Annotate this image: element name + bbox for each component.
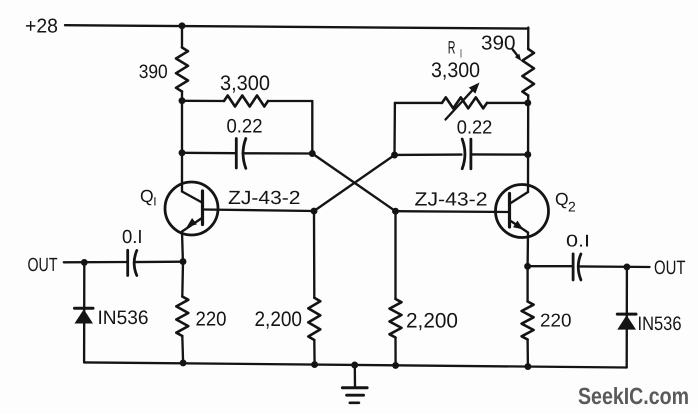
capacitor 0.1 right	[573, 254, 581, 280]
svg-text:OUT: OUT	[28, 255, 58, 276]
wire 0.1 left to Q1 emitter node	[134, 261, 183, 264]
value label 390 right with pointer arrow	[481, 33, 521, 62]
label Q2	[555, 189, 576, 215]
transistor Q1	[165, 182, 218, 235]
junction Q2 base cross node	[392, 208, 399, 215]
resistor 2,200 right	[390, 299, 402, 338]
wire 0.22 right cap left lead	[395, 153, 462, 156]
resistor 390 right	[522, 49, 534, 96]
resistor 390 left	[176, 48, 188, 92]
junction right collector / 0.22	[524, 151, 531, 158]
wire left 390 bottom to Q1 collector (through cap junction)	[181, 92, 183, 192]
svg-text:Q: Q	[555, 189, 569, 209]
wire Q1 base to cross node	[203, 210, 314, 212]
wire bottom rail	[84, 362, 627, 367]
junction top rail to left 390	[179, 22, 186, 29]
wire Q2 emitter node to 0.1 right	[528, 265, 574, 267]
label R1	[448, 37, 462, 60]
wire emitter node to 220 left	[181, 262, 184, 297]
wire +28 top rail	[65, 25, 528, 28]
svg-text:2,200: 2,200	[406, 309, 458, 332]
svg-text:390: 390	[139, 61, 168, 83]
diode 1N536 right	[617, 267, 636, 368]
wire R1 right lead	[487, 102, 528, 104]
resistor 220 left	[176, 297, 188, 337]
wire right rail 390 bottom to Q2 collector	[527, 96, 530, 193]
svg-text:OUT: OUT	[654, 257, 686, 279]
svg-text:R: R	[448, 37, 456, 57]
wire 0.22 left lead	[182, 152, 236, 155]
wire 3300 left lead	[182, 100, 224, 103]
junction bottom rail / 2200 left	[311, 361, 318, 368]
junction OUT left / diode	[81, 259, 88, 266]
junction left 0.22 / cross wire	[309, 150, 316, 157]
wire Q2 emitter down	[526, 233, 529, 267]
junction bottom rail / 220 left	[180, 359, 187, 366]
svg-text:Q: Q	[140, 186, 154, 206]
svg-text:ZJ-43-2: ZJ-43-2	[228, 188, 301, 209]
resistor R1 3,300 variable	[442, 83, 487, 120]
svg-text:220: 220	[540, 310, 572, 331]
label Q1	[140, 186, 157, 209]
transistor Q2	[496, 185, 549, 238]
svg-text:390: 390	[481, 33, 516, 55]
wire cross-coupling left-top to right-bottom	[312, 154, 395, 212]
junction bottom rail / 220 right	[524, 363, 531, 370]
ground	[342, 366, 367, 403]
capacitor 0.22 right	[462, 139, 471, 169]
capacitor 0.1 left	[128, 250, 137, 275]
wire cross node down to 2200 right	[394, 211, 396, 299]
wire Q2 base to cross node	[396, 210, 510, 213]
svg-text:2,200: 2,200	[255, 308, 303, 331]
junction bottom rail / 2200 right	[392, 362, 399, 369]
wire emitter node to 220 right	[526, 266, 528, 301]
junction Q2 emitter / 0.1	[524, 263, 531, 270]
svg-text:2: 2	[568, 199, 576, 215]
diode 1N536 left	[75, 262, 94, 362]
junction left collector / 0.22	[179, 149, 186, 156]
wire top-right corner drop to R 390 right	[527, 28, 529, 49]
junction bottom rail / ground	[351, 362, 358, 369]
wire 0.22 right lead	[243, 152, 313, 155]
resistor 2,200 left	[308, 298, 320, 340]
junction right 390 / R1	[524, 99, 531, 106]
junction right 0.22 / cross wire	[391, 152, 398, 159]
wire 2200 right to bottom rail	[394, 338, 396, 366]
wire OUT left lead	[64, 261, 128, 264]
svg-text:3,300: 3,300	[431, 59, 480, 82]
node +28 supply label	[25, 15, 58, 37]
capacitor 0.22 left	[236, 139, 246, 169]
svg-text:ZJ-43-2: ZJ-43-2	[415, 189, 488, 210]
svg-text:0.I: 0.I	[122, 227, 143, 248]
svg-text:IN536: IN536	[638, 313, 682, 335]
junction Q1 emitter / 0.1	[180, 258, 187, 265]
resistor 3,300 left	[224, 96, 268, 107]
svg-text:0.I: 0.I	[566, 232, 590, 251]
wire cross node down to 2200 left	[313, 211, 316, 298]
junction OUT right / diode	[623, 263, 630, 270]
wire R1 left lead	[395, 102, 442, 104]
svg-text:220: 220	[196, 308, 227, 330]
svg-text:0.22: 0.22	[227, 116, 263, 138]
svg-text:0.22: 0.22	[457, 117, 493, 138]
wire 2200 left to bottom rail	[313, 340, 316, 365]
wire 0.1 right to OUT	[578, 265, 649, 268]
wire 220 right to bottom rail	[526, 340, 529, 367]
wire 3300 right lead	[268, 100, 312, 102]
svg-text:IN536: IN536	[98, 307, 149, 329]
resistor 220 right	[522, 302, 534, 340]
svg-text:SeekIC.com: SeekIC.com	[578, 383, 689, 409]
svg-text:3,300: 3,300	[220, 72, 270, 95]
wire variable resistor left corner down	[393, 103, 396, 155]
wire 0.22 right cap right lead	[471, 153, 528, 156]
wire from top rail down to left 390	[181, 26, 183, 48]
wire 220 left to bottom rail	[181, 336, 184, 363]
junction Q1 base cross node	[311, 208, 318, 215]
svg-text:I: I	[153, 195, 156, 209]
wire Q1 emitter down	[181, 232, 184, 262]
wire 3300 corner down to 0.22 node	[311, 101, 313, 154]
junction left 390 / 3300	[179, 97, 186, 104]
wire cross-coupling right-top to left-bottom	[314, 155, 395, 211]
svg-text:+28: +28	[25, 15, 58, 37]
